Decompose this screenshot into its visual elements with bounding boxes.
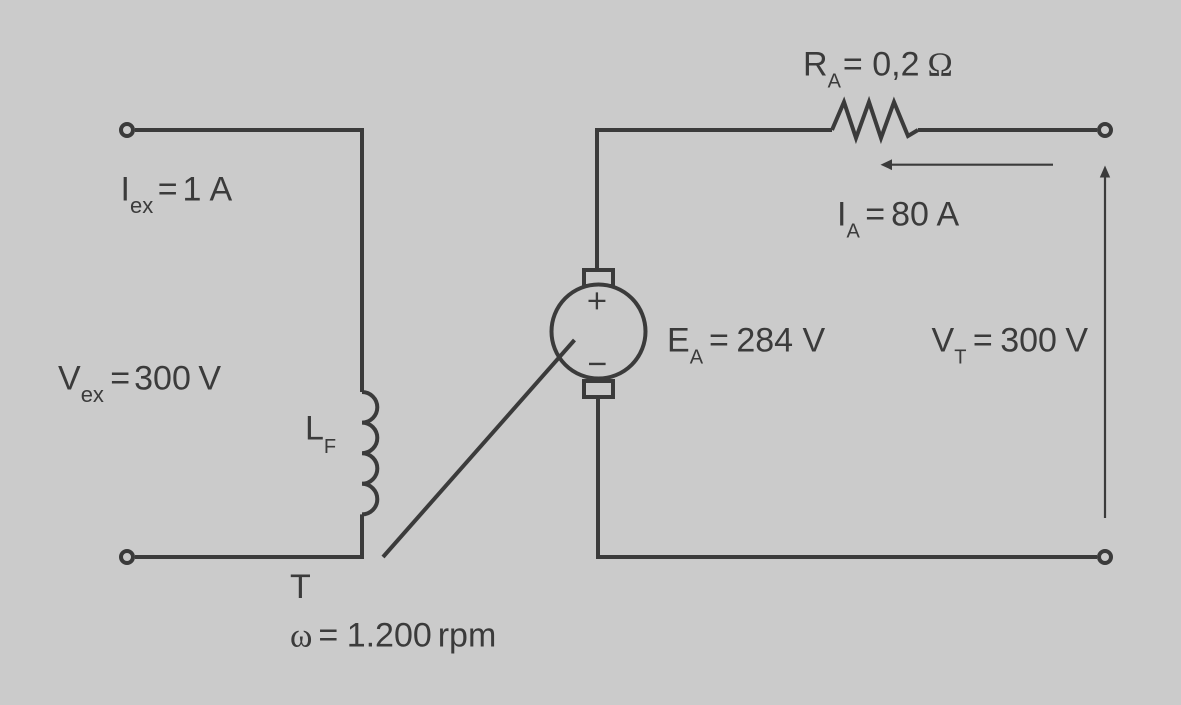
svg-text:ω= 1.200 rpm: ω= 1.200 rpm <box>290 617 496 655</box>
brush top <box>584 270 613 286</box>
plus polarity mark <box>589 292 606 309</box>
svg-text:T: T <box>290 568 311 606</box>
inductor LF coil <box>362 392 377 514</box>
motor M armature circle <box>552 285 646 379</box>
terminal: armature top right <box>1099 124 1111 136</box>
wire: armature bottom run <box>598 397 1097 557</box>
wire: field circuit top (terminal to corner, down to coil) <box>135 130 362 392</box>
wire: armature left vertical + top run to resistor <box>597 130 832 270</box>
shaft line to T <box>383 340 575 557</box>
arrow VT (voltage, pointing up) <box>1104 177 1106 518</box>
terminal: field + <box>121 124 133 136</box>
terminal: field - <box>121 551 133 563</box>
wire: field circuit bottom (coil down, left to terminal) <box>135 514 362 557</box>
terminal: armature bottom right <box>1099 551 1111 563</box>
resistor RA zigzag <box>832 102 918 138</box>
wire: resistor to right terminal <box>918 128 1097 132</box>
brush bottom <box>584 381 613 397</box>
minus polarity mark <box>589 363 606 365</box>
arrow IA (current, pointing left) <box>891 164 1053 166</box>
